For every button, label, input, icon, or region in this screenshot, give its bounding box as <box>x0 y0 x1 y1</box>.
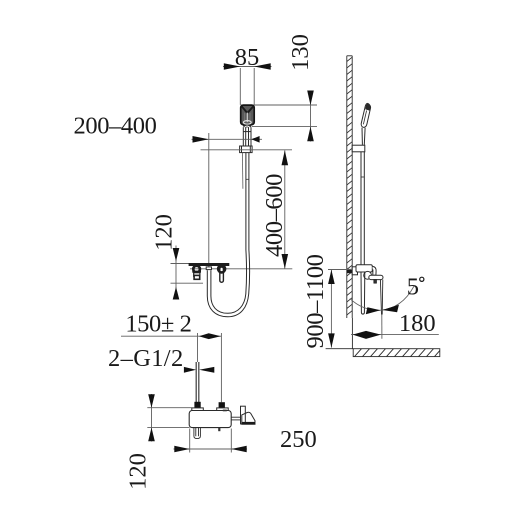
arrow 200-400 right <box>251 136 259 143</box>
dim line 120 front <box>175 246 177 300</box>
slider rod (front) <box>241 153 244 189</box>
arrow 900-1100 top <box>328 270 335 284</box>
mount plate right <box>217 408 229 411</box>
dim line 85 <box>223 66 272 68</box>
svg-text:5: 5 <box>407 274 419 301</box>
angle arc 5deg <box>350 286 414 310</box>
arrow 400-600 top <box>282 150 289 165</box>
svg-text:250: 250 <box>280 426 317 453</box>
floor (hatched) <box>353 349 440 357</box>
svg-text:130: 130 <box>287 34 314 71</box>
mount plate left <box>192 408 204 411</box>
extension line bracket level <box>201 149 293 151</box>
supply pipe <box>196 362 199 402</box>
dim line 130 <box>310 91 312 142</box>
arrow 200-400 left <box>193 136 209 143</box>
lever pivot (side) <box>364 271 372 279</box>
faucet body (side) <box>356 265 372 272</box>
arrow 130 top <box>307 91 314 106</box>
arrow 250 left <box>174 446 189 453</box>
hose drop (side) <box>361 152 364 265</box>
arrow 120 bottom bottom <box>148 428 155 442</box>
hand shower handle (side) <box>362 128 365 145</box>
extension line 120 top <box>171 263 190 265</box>
spout pipe (bottom view) <box>231 417 241 420</box>
arrow 400-600 bottom <box>282 254 289 269</box>
hand shower head (side) <box>361 103 370 127</box>
extension line 120b top <box>147 407 192 409</box>
hose joint tick (side) <box>361 176 364 178</box>
dim line 200-400 <box>192 138 263 140</box>
faucet mount plate (side) <box>352 267 357 275</box>
extension line 250 right <box>230 429 232 453</box>
dim line 150 <box>121 335 221 337</box>
inlet stub left <box>194 402 200 408</box>
arrow 130 bottom <box>307 127 314 142</box>
faucet body (bottom view) <box>189 411 231 428</box>
right valve lever (front) <box>220 267 224 282</box>
wall mount block (side) <box>347 269 352 273</box>
left valve lower box (front) <box>194 275 200 279</box>
dim line 400-600 <box>284 150 286 268</box>
arrow 85 right <box>254 63 271 70</box>
extension line floor level <box>326 348 354 350</box>
svg-text:400–600: 400–600 <box>261 174 288 257</box>
right valve ring (front) <box>218 265 225 272</box>
slider bracket (side) <box>352 145 365 152</box>
hose fitting under bar (front) <box>206 267 211 270</box>
extension line 120 bottom <box>171 282 204 284</box>
body top mark <box>223 410 227 412</box>
wall face line lower <box>351 318 353 349</box>
arrow 85 left <box>224 63 241 70</box>
left valve knob ring (front) <box>193 266 200 273</box>
hand shower head (front) <box>241 105 255 125</box>
dim line 900-1100 <box>330 270 332 348</box>
angle arrow right <box>382 305 399 313</box>
faucet elbow (side) <box>372 266 376 275</box>
svg-text:180: 180 <box>399 310 436 337</box>
dim line 180 <box>351 334 439 336</box>
extension line bar level <box>190 268 292 270</box>
extension line 150 right <box>220 333 222 402</box>
small stub under body <box>218 428 220 432</box>
arrow 120 bottom top <box>148 394 155 407</box>
drain tube <box>194 428 201 439</box>
extension line head bottom <box>252 126 317 128</box>
double arrow 150 <box>199 333 221 339</box>
straight tube (side) <box>361 272 365 314</box>
faucet wall bar (front) <box>189 263 230 266</box>
extension line 200-400 vertical <box>208 133 210 270</box>
arrow 120 front bottom <box>173 287 180 300</box>
svg-text:2–G1/2: 2–G1/2 <box>108 345 183 372</box>
double arrow 180 <box>353 331 381 339</box>
arrow 120 front top <box>173 248 180 261</box>
wall (hatched) <box>347 56 352 318</box>
angle text degree circle <box>420 277 424 281</box>
extension line 120b bottom <box>147 427 189 429</box>
dim line 120 bottom <box>151 394 153 442</box>
wall hatch <box>347 57 352 315</box>
svg-text:120: 120 <box>151 214 178 251</box>
left valve body (front) <box>194 273 200 277</box>
extension line spout down <box>381 315 383 339</box>
slider bracket (front) <box>240 146 253 153</box>
extension line 85 left <box>239 68 241 105</box>
extension line faucet level <box>328 269 352 271</box>
arrow 250 right <box>231 446 246 453</box>
svg-text:200–400: 200–400 <box>74 113 157 140</box>
hand shower neck arch (front) <box>244 126 250 127</box>
extension line 85 right <box>253 68 255 105</box>
angle arrow left <box>366 307 381 314</box>
inlet stub right <box>219 402 225 408</box>
extension line 150 left <box>197 333 199 362</box>
left valve flange (front) <box>192 271 201 273</box>
svg-text:120: 120 <box>125 453 152 490</box>
tilted spout tube (side) <box>380 280 382 315</box>
spout flag (bottom view) <box>241 406 246 424</box>
svg-text:900–1100: 900–1100 <box>302 254 329 348</box>
dim line 250 <box>174 448 248 450</box>
extension line head top <box>241 104 318 106</box>
spout nozzle base <box>242 422 255 424</box>
arrow G1/2 right <box>199 367 214 373</box>
spout nozzle (bottom view) <box>242 412 255 424</box>
spout arm (side) <box>369 275 383 279</box>
hand shower neck taper (front) <box>242 125 251 128</box>
extension line 250 left <box>189 429 191 453</box>
shower hose (front) <box>207 153 249 317</box>
hose joint tick (front) <box>246 178 249 180</box>
hand shower handle (front) <box>243 127 251 146</box>
lever handle (side) <box>374 280 377 284</box>
arrow 900-1100 bottom <box>328 333 335 347</box>
arrow G1/2 left <box>184 367 196 373</box>
svg-text:150± 2: 150± 2 <box>125 311 191 338</box>
